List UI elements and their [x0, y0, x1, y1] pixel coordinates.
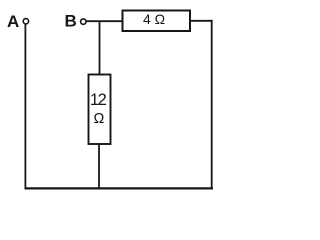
- svg-text:12: 12: [90, 91, 107, 109]
- terminal B: [81, 19, 86, 24]
- svg-text:A: A: [7, 12, 19, 31]
- terminal A: [23, 19, 28, 24]
- wire R1 bottom to bottom wire: [98, 144, 100, 189]
- svg-text:B: B: [65, 11, 77, 30]
- resistor R2 body: [123, 11, 191, 32]
- wire A terminal down to bottom-left corner: [24, 24, 26, 189]
- svg-text:4 Ω: 4 Ω: [143, 11, 165, 27]
- wire B terminal to resistor R2: [86, 20, 123, 22]
- wire R2 right side to top-right corner: [190, 20, 213, 22]
- wire right vertical down to bottom-right corner: [211, 20, 213, 189]
- svg-text:Ω: Ω: [93, 111, 104, 127]
- bottom wire: [25, 187, 214, 189]
- wire junction down to resistor R1 top: [99, 21, 101, 75]
- resistor R1 body: [89, 75, 111, 145]
